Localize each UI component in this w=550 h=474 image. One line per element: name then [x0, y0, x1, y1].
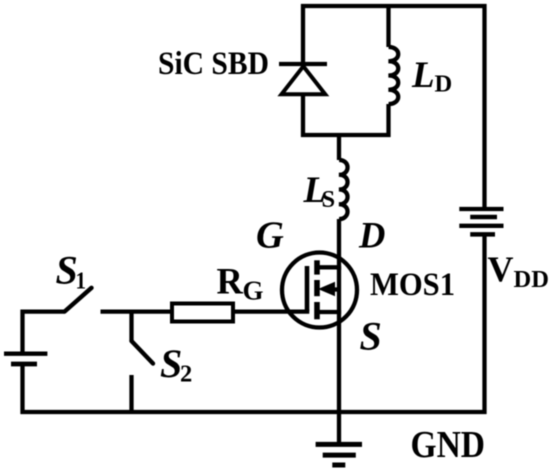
wire gate driver left vertical top: [20, 310, 24, 352]
wire switch S1 left: [21, 309, 65, 313]
wire resistor RG to gate: [233, 309, 309, 313]
wire parallel bottom bus to inductor LS: [337, 133, 341, 160]
switch S2 bottom stub: [129, 375, 133, 412]
wire VDD branch top bus to battery: [482, 4, 486, 207]
svg-text:SiC SBD: SiC SBD: [158, 46, 269, 82]
wire inductor LD to parallel bottom bus: [386, 104, 390, 137]
svg-text:S: S: [322, 186, 336, 213]
transistor MOS1 body arrow head: [318, 282, 335, 297]
wire diode cathode to top bus: [301, 4, 305, 64]
svg-text:G: G: [243, 275, 264, 305]
wire parallel bottom bus: [301, 133, 391, 137]
wire MOSFET source to bottom bus node S: [337, 310, 341, 414]
svg-text:R: R: [217, 261, 244, 302]
transistor MOS1 channel dash bottom: [314, 302, 320, 319]
battery gate driver plate long: [4, 352, 47, 356]
transistor MOS1 gate bar: [305, 266, 310, 311]
svg-text:1: 1: [76, 267, 87, 294]
switch S2 blade: [132, 341, 154, 364]
wire diode anode to parallel bottom bus: [301, 94, 305, 137]
svg-text:2: 2: [180, 361, 192, 388]
battery VDD plate 2 short: [470, 215, 497, 220]
switch S2 top stub: [129, 312, 133, 341]
svg-text:GND: GND: [411, 424, 486, 466]
inductor LD coil: [389, 47, 399, 104]
svg-text:DD: DD: [514, 266, 549, 293]
switch S1 blade: [65, 288, 92, 312]
svg-text:S: S: [160, 341, 182, 386]
diode D1 SiC SBD triangle: [282, 66, 326, 94]
transistor MOS1 channel dash middle: [314, 280, 320, 296]
svg-text:D: D: [435, 71, 453, 98]
svg-text:G: G: [256, 215, 284, 257]
transistor MOS1 body arrow shaft: [333, 287, 341, 291]
wire gate driver left vertical bottom: [20, 366, 24, 414]
ground symbol bar 3: [332, 463, 345, 468]
battery gate driver plate short: [11, 362, 37, 367]
wire top bus: [301, 4, 487, 8]
transistor MOS1 body circle: [282, 253, 357, 328]
wire battery VDD to bottom bus: [482, 236, 486, 414]
diode D1 SiC SBD cathode bar: [279, 62, 327, 66]
svg-text:V: V: [488, 249, 514, 289]
ground symbol stub: [337, 412, 341, 444]
transistor MOS1 drain stub: [317, 265, 341, 269]
ground symbol bar 2: [323, 453, 356, 458]
svg-text:S: S: [360, 314, 382, 359]
battery VDD plate 4 short: [470, 232, 495, 237]
svg-text:MOS1: MOS1: [370, 267, 455, 303]
transistor MOS1 channel dash top: [314, 260, 320, 274]
wire top bus to inductor LD: [386, 4, 390, 47]
resistor RG body: [172, 304, 233, 322]
wire inductor LS to MOSFET drain node D: [337, 219, 341, 270]
svg-text:D: D: [358, 215, 385, 256]
ground symbol bar 1: [316, 442, 362, 447]
battery VDD plate 1 long: [459, 207, 503, 211]
battery VDD plate 3 long: [459, 224, 503, 228]
wire switch S1 right to resistor RG: [101, 309, 173, 313]
svg-text:S: S: [56, 247, 78, 292]
wire bottom bus: [21, 410, 487, 414]
svg-text:L: L: [411, 55, 435, 96]
transistor MOS1 source stub: [317, 310, 341, 314]
inductor LS coil: [339, 160, 348, 219]
transistor MOS1 internal vertical: [337, 266, 341, 314]
